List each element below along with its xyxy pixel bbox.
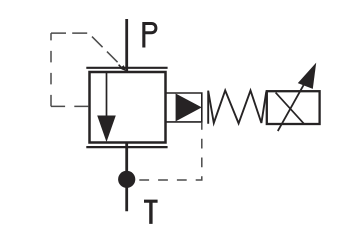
pilot line arrow shaft — [119, 65, 124, 70]
pilot line (dashed, left side): top run and diagonal — [51, 33, 122, 67]
adjustment box — [267, 91, 320, 124]
poppet cone (solid triangle) — [176, 94, 202, 122]
wire: lower seat line (double bottom edge) — [86, 146, 167, 148]
junction dot — [118, 171, 135, 188]
adjustment arrowhead — [298, 63, 316, 89]
wire: P supply line — [125, 19, 128, 73]
pilot line (dashed, left side): bottom run — [51, 105, 90, 107]
adjustment arrow shaft — [278, 76, 309, 131]
node T label — [144, 200, 158, 224]
pilot line arrowhead — [120, 65, 126, 71]
adjustment box diagonal — [276, 93, 304, 124]
pilot line (dashed, left side): vertical run — [50, 33, 52, 106]
spring — [208, 90, 266, 123]
poppet seat rectangle (right side) — [166, 93, 202, 122]
drain line (dashed, from junction dot to spring chamber) — [139, 122, 202, 180]
flow arrow inside valve body — [97, 73, 116, 143]
node P label — [142, 22, 157, 48]
wire: upper seat line (double top edge) — [86, 67, 167, 69]
valve body square — [90, 72, 166, 143]
wire: T return line — [125, 142, 128, 212]
